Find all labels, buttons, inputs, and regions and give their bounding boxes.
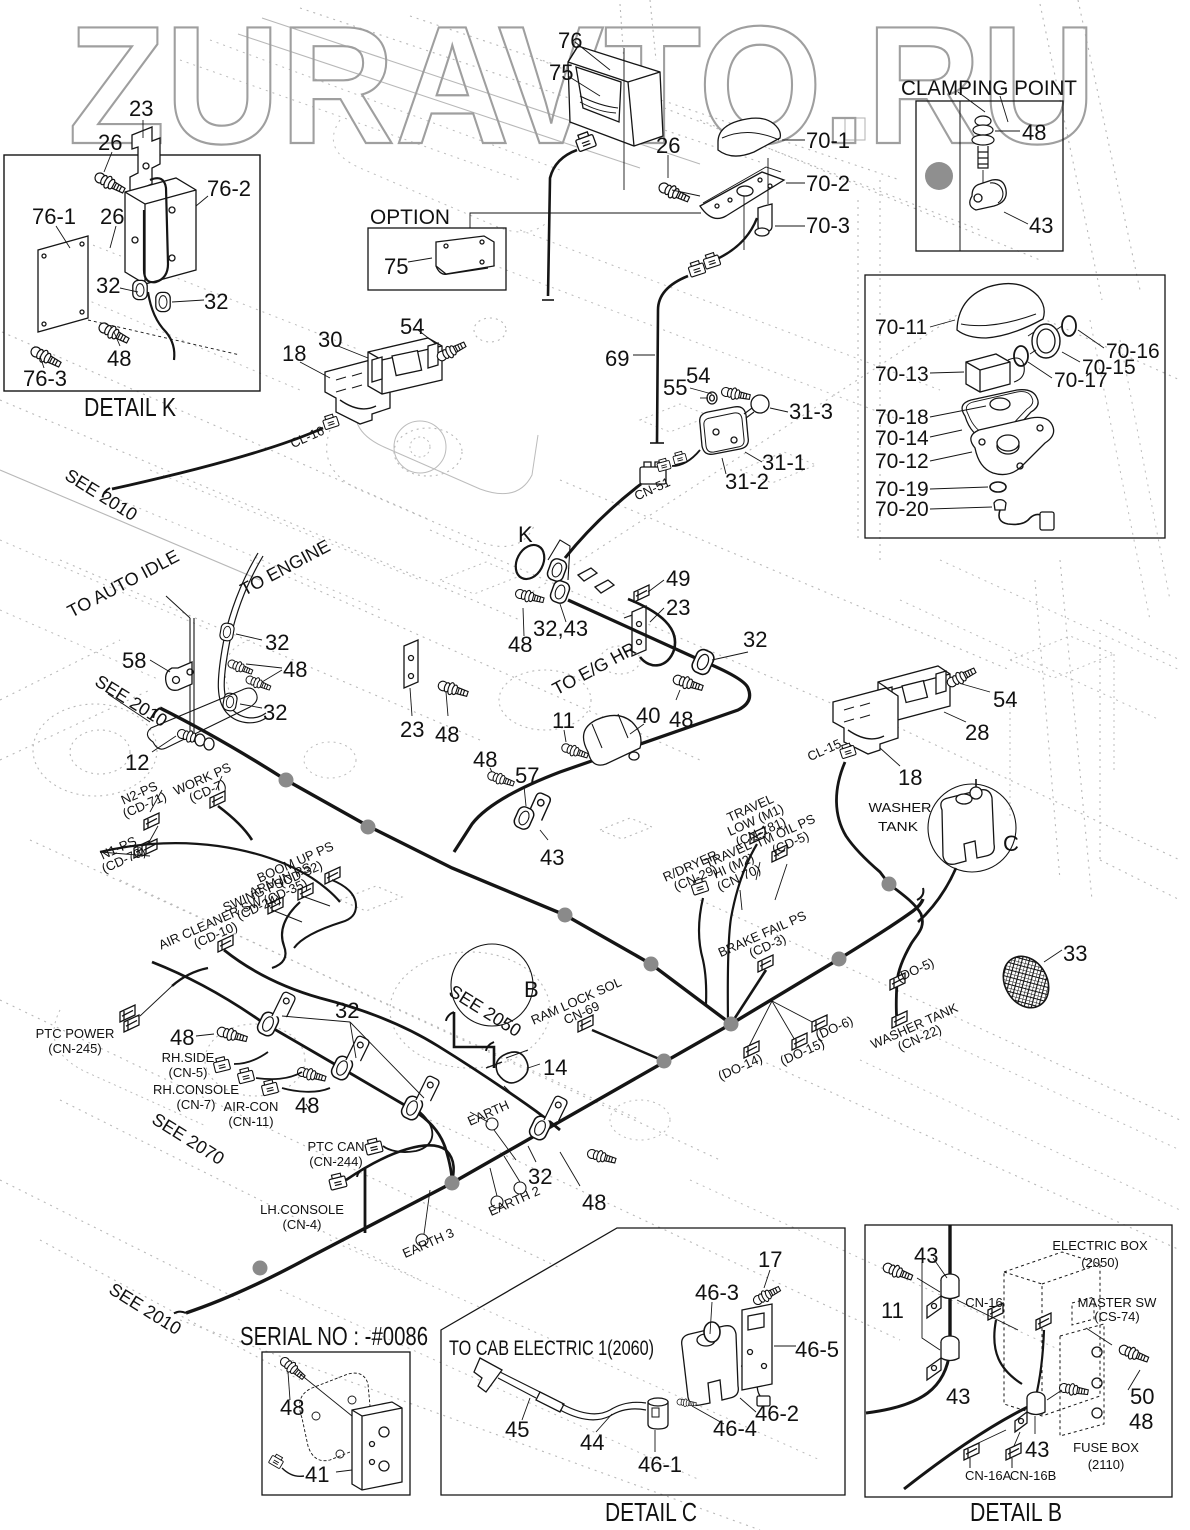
switch body 70-13 <box>966 354 1010 392</box>
bolt 48 (detail K) <box>97 320 131 347</box>
wire from monitor <box>548 150 577 296</box>
flag SWING PS CD-24 <box>268 897 283 914</box>
svg-text:58: 58 <box>122 648 146 673</box>
svg-text:70-1: 70-1 <box>806 128 850 153</box>
svg-text:RH.SIDE: RH.SIDE <box>162 1050 215 1065</box>
arrow TO CAB ELECTRIC <box>474 1358 502 1392</box>
svg-text:OPTION: OPTION <box>370 206 450 229</box>
bolt 17 <box>751 1283 782 1307</box>
svg-text:76: 76 <box>558 28 582 53</box>
70-2 plate <box>700 172 784 218</box>
svg-text:26: 26 <box>98 130 122 155</box>
svg-text:48: 48 <box>669 707 693 732</box>
svg-text:43: 43 <box>1025 1437 1049 1462</box>
bracket 46-5 <box>742 1304 772 1390</box>
svg-text:DETAIL C: DETAIL C <box>605 1497 697 1527</box>
svg-text:WASHER: WASHER <box>869 800 932 815</box>
flag WASHER TANK CN-22 <box>892 1011 907 1028</box>
grommet 32 (detail K right) <box>156 292 170 311</box>
svg-text:70-18: 70-18 <box>875 406 929 429</box>
connector pair (wire 69 top) <box>702 252 721 270</box>
flag DO-5 <box>890 973 905 990</box>
svg-text:76-2: 76-2 <box>207 176 251 201</box>
clamp 43 (clamping point) <box>970 180 1007 210</box>
flag TRAVEL <box>750 827 765 844</box>
lamp cover 70-11 <box>957 284 1044 338</box>
svg-text:(CN-245): (CN-245) <box>48 1041 101 1056</box>
svg-text:26: 26 <box>100 204 124 229</box>
branch RAM LOCK SOL <box>592 1030 664 1061</box>
bolt 54 (right) <box>945 665 978 690</box>
clamping point box <box>916 101 1063 251</box>
wire LH.CONSOLE <box>346 1145 454 1183</box>
bolt 11 (detail B) <box>881 1260 914 1283</box>
gasket 70-18 / 70-14 <box>962 390 1038 441</box>
svg-text:(CN-5): (CN-5) <box>169 1065 208 1080</box>
svg-text:32: 32 <box>335 998 359 1023</box>
wire TRAVEL <box>728 844 757 1022</box>
reservoir 46-2 <box>682 1326 739 1406</box>
svg-text:48: 48 <box>295 1093 319 1118</box>
svg-text:70-20: 70-20 <box>875 498 929 521</box>
earth ring EARTH <box>486 1118 498 1130</box>
bolt 48 (mid bracket 23) <box>437 679 470 700</box>
hook SEE 2010 (mid) <box>151 708 162 718</box>
svg-text:31-2: 31-2 <box>725 469 769 494</box>
clamp 57 <box>512 805 536 831</box>
wire CN-51 to grommet K <box>565 484 641 558</box>
svg-text:31-3: 31-3 <box>789 399 833 424</box>
bolt 48 (tube lower) <box>244 674 272 693</box>
svg-text:70-14: 70-14 <box>875 427 929 450</box>
svg-text:43: 43 <box>946 1384 970 1409</box>
monitor 75/76 <box>568 46 663 146</box>
flag RAM LOCK SOL CN-69 <box>578 1015 593 1032</box>
svg-text:(CN-11): (CN-11) <box>228 1114 273 1129</box>
washer branch wire (CL-15) <box>836 762 922 1020</box>
svg-text:48: 48 <box>1129 1409 1153 1434</box>
svg-text:23: 23 <box>400 717 424 742</box>
svg-text:32: 32 <box>96 273 120 298</box>
flag DO-15 <box>792 1033 807 1050</box>
svg-text:76-1: 76-1 <box>32 204 76 229</box>
trunk wire from K <box>568 600 700 660</box>
svg-text:DETAIL B: DETAIL B <box>970 1497 1062 1527</box>
grommet 32 (console 3) <box>399 1094 424 1122</box>
svg-text:(2110): (2110) <box>1088 1457 1125 1472</box>
bolt 50 <box>1117 1342 1150 1365</box>
trunk harness lower arm <box>186 1024 731 1313</box>
svg-text:C: C <box>1003 831 1019 856</box>
bolt 48 (air-con) <box>296 1065 327 1084</box>
tube loop 12 <box>147 688 257 749</box>
mirror 33 <box>994 948 1057 1016</box>
bolt 54 (lamp) <box>720 385 751 402</box>
svg-text:70-3: 70-3 <box>806 213 850 238</box>
circle C <box>928 784 1016 872</box>
retainer ring 70-15 <box>1032 324 1060 358</box>
air cleaner branch wire <box>224 950 560 1130</box>
svg-text:75: 75 <box>384 254 408 279</box>
o-ring 70-16 <box>1062 316 1076 336</box>
svg-text:48: 48 <box>1022 120 1046 145</box>
svg-text:69: 69 <box>605 346 629 371</box>
bolt 48 (tube upper) <box>226 658 254 677</box>
clip 49 <box>634 585 649 602</box>
plate 76-1 <box>38 236 88 332</box>
svg-text:46-1: 46-1 <box>638 1452 682 1477</box>
svg-text:43: 43 <box>914 1243 938 1268</box>
svg-text:46-5: 46-5 <box>795 1337 839 1362</box>
connector RH.CONSOLE CN-7 <box>237 1067 255 1084</box>
grommet 32 (trunk) <box>690 647 716 676</box>
svg-text:(CN-4): (CN-4) <box>283 1217 322 1232</box>
svg-text:70-17: 70-17 <box>1054 369 1108 392</box>
svg-text:CN-16A: CN-16A <box>965 1468 1012 1483</box>
console branch wire <box>152 962 452 1183</box>
svg-text:70-11: 70-11 <box>875 316 927 339</box>
svg-text:32,43: 32,43 <box>533 616 588 641</box>
svg-text:ELECTRIC BOX: ELECTRIC BOX <box>1052 1238 1148 1253</box>
trunk hook end (right) <box>917 888 923 900</box>
svg-text:14: 14 <box>543 1055 567 1080</box>
svg-text:CN-16B: CN-16B <box>1010 1468 1056 1483</box>
svg-text:CLAMPING POINT: CLAMPING POINT <box>901 77 1077 100</box>
svg-text:54: 54 <box>400 314 424 339</box>
svg-text:46-2: 46-2 <box>755 1401 799 1426</box>
svg-text:(CS-74): (CS-74) <box>1094 1309 1140 1324</box>
svg-text:54: 54 <box>686 363 710 388</box>
bracket 23 (mid) <box>404 640 418 688</box>
connectors TO E/G HR <box>578 568 614 593</box>
flag DO-6 <box>812 1015 827 1032</box>
earth ring EARTH 2 <box>514 1182 526 1194</box>
svg-text:RH.CONSOLE: RH.CONSOLE <box>153 1082 239 1097</box>
svg-text:23: 23 <box>666 595 690 620</box>
bolt 12 <box>176 727 207 747</box>
wire CL-16 to SEE 2010 <box>112 428 323 489</box>
flag CN-16B <box>1006 1443 1021 1460</box>
bolt 76-3 <box>29 344 63 371</box>
svg-text:AIR-CON: AIR-CON <box>224 1099 279 1114</box>
svg-text:12: 12 <box>125 750 149 775</box>
detail C box <box>441 1228 845 1495</box>
bulb 70-20 <box>994 500 1006 510</box>
svg-text:43: 43 <box>540 845 564 870</box>
flag PTC POWER CN-245 <box>120 1005 135 1022</box>
svg-text:70-12: 70-12 <box>875 450 929 473</box>
svg-text:LH.CONSOLE: LH.CONSOLE <box>260 1202 344 1217</box>
svg-text:11: 11 <box>552 708 575 733</box>
parts 70 box <box>865 275 1165 538</box>
svg-text:57: 57 <box>515 763 539 788</box>
wire loop at bracket 23 <box>628 599 675 665</box>
flag TM OIL PS CD-5 <box>772 845 787 862</box>
grommet 32 (detail K left) <box>133 280 147 299</box>
svg-text:48: 48 <box>170 1025 194 1050</box>
earth ring EARTH 3 <box>416 1234 428 1246</box>
svg-text:23: 23 <box>129 96 153 121</box>
base plate 70-12 <box>971 417 1054 474</box>
svg-text:(2050): (2050) <box>1081 1255 1119 1270</box>
svg-text:(CN-244): (CN-244) <box>309 1154 362 1169</box>
main wire (detail B) <box>948 1225 951 1352</box>
branch BRAKE FAIL PS <box>731 970 766 1024</box>
bulb 31-3 <box>751 395 769 413</box>
svg-text:48: 48 <box>508 632 532 657</box>
bracket 18 (right) <box>833 688 898 754</box>
svg-text:54: 54 <box>993 687 1017 712</box>
svg-text:44: 44 <box>580 1430 604 1455</box>
svg-text:DETAIL K: DETAIL K <box>84 392 177 422</box>
o-ring 70-17 <box>1014 346 1028 366</box>
70-3 bolt <box>758 204 772 232</box>
connector LH.CONSOLE CN-4 <box>328 1172 347 1190</box>
svg-text:76-3: 76-3 <box>23 366 67 391</box>
flag N1-PS CD-70 <box>134 841 149 858</box>
connector CL-15 <box>839 742 857 759</box>
switch panel 28 <box>878 666 950 722</box>
lamp 31-1 <box>700 407 749 455</box>
connector CN-51 <box>640 467 666 484</box>
wire 69 <box>657 276 688 443</box>
plate 75 (option) <box>436 236 494 274</box>
wire PTC POWER <box>172 968 208 986</box>
svg-text:33: 33 <box>1063 941 1087 966</box>
bolt 48 (node K) <box>514 587 545 606</box>
svg-text:75: 75 <box>549 60 573 85</box>
connector RH.SIDE CN-5 <box>213 1056 231 1073</box>
svg-text:TANK: TANK <box>878 819 918 834</box>
svg-text:18: 18 <box>898 765 922 790</box>
bracket 18 top <box>325 358 390 424</box>
bolt 48 (earth) <box>586 1147 617 1166</box>
connector AIR-CON CN-11 <box>261 1079 279 1096</box>
svg-text:17: 17 <box>758 1247 782 1272</box>
hook SEE 2010 (bottom) <box>174 1307 186 1319</box>
flag CN-16A <box>964 1443 979 1460</box>
flag AIR CLEANER SW CD-10 <box>218 935 233 952</box>
svg-text:48: 48 <box>280 1395 304 1420</box>
flag N2-PS CD-71 <box>144 813 159 830</box>
svg-text:30: 30 <box>318 327 342 352</box>
option box <box>368 228 506 290</box>
grommet 32,43 upper <box>546 557 569 583</box>
bolt 48 (console) <box>216 1025 249 1045</box>
washer tank wire <box>918 868 956 922</box>
grommet 32 (console 1) <box>255 1010 280 1038</box>
bolt 48 (serial box) <box>278 1355 308 1382</box>
svg-text:18: 18 <box>282 341 306 366</box>
svg-text:K: K <box>518 522 533 547</box>
bracket 43 on trunk <box>525 792 551 826</box>
svg-text:55: 55 <box>663 375 687 400</box>
engine tube <box>218 553 266 723</box>
svg-text:32: 32 <box>263 700 287 725</box>
washer tank body <box>941 790 994 865</box>
svg-text:48: 48 <box>582 1190 606 1215</box>
svg-text:48: 48 <box>473 747 497 772</box>
svg-text:32: 32 <box>743 627 767 652</box>
o-ring 70-19 <box>990 482 1006 492</box>
flag BOOM UP PS CD-32 <box>325 867 340 884</box>
flag DO-14 <box>744 1041 759 1058</box>
svg-text:28: 28 <box>965 720 989 745</box>
stub wires SEE 2050 <box>454 1012 494 1068</box>
bolt 48 (clamping point) <box>975 116 991 126</box>
svg-text:32: 32 <box>204 289 228 314</box>
svg-text:B: B <box>524 977 539 1002</box>
stub wire SEE 2070 <box>364 1168 367 1233</box>
svg-text:(CN-7): (CN-7) <box>177 1097 216 1112</box>
bolt 26 (upper, detail K) <box>93 170 127 197</box>
svg-text:50: 50 <box>1130 1384 1154 1409</box>
svg-text:PTC POWER: PTC POWER <box>36 1026 115 1041</box>
70-1 dome <box>718 118 780 156</box>
svg-text:32: 32 <box>265 630 289 655</box>
svg-text:70-13: 70-13 <box>875 363 929 386</box>
wire R/DRYER <box>699 898 706 1004</box>
serial box <box>262 1352 410 1495</box>
svg-text:48: 48 <box>283 657 307 682</box>
bolt 11 <box>560 741 589 761</box>
svg-text:MASTER SW: MASTER SW <box>1078 1295 1157 1310</box>
svg-text:49: 49 <box>666 566 690 591</box>
ellipse node K <box>510 540 550 584</box>
bolt 46-4 <box>676 1398 696 1408</box>
bolt 26 (top center) <box>657 180 691 205</box>
svg-text:TO CAB ELECTRIC 1(2060): TO CAB ELECTRIC 1(2060) <box>449 1337 654 1360</box>
connector CL-16 <box>322 413 340 430</box>
svg-text:26: 26 <box>656 133 680 158</box>
svg-text:46-4: 46-4 <box>713 1416 757 1441</box>
svg-text:FUSE BOX: FUSE BOX <box>1073 1440 1139 1455</box>
bolt 48 (near 57) <box>486 769 515 789</box>
solenoid 40 <box>584 715 642 765</box>
svg-text:46-3: 46-3 <box>695 1280 739 1305</box>
connector PTC CAN CN-244 <box>364 1137 383 1155</box>
detail B box <box>865 1225 1172 1497</box>
clamping point marker dot <box>925 162 953 190</box>
detail K frame <box>4 155 260 391</box>
bracket 23 (right) <box>632 606 646 656</box>
grommet 32 (console 2) <box>329 1054 354 1082</box>
svg-text:CN-16: CN-16 <box>965 1295 1003 1310</box>
svg-text:11: 11 <box>881 1298 904 1323</box>
svg-text:45: 45 <box>505 1417 529 1442</box>
bolt 48 (detail B) <box>1059 1381 1089 1398</box>
svg-text:70-2: 70-2 <box>806 171 850 196</box>
svg-text:48: 48 <box>435 722 459 747</box>
svg-text:SERIAL NO : -#0086: SERIAL NO : -#0086 <box>240 1321 428 1351</box>
trunk harness left arm <box>160 708 731 1024</box>
svg-text:PTC CAN: PTC CAN <box>307 1139 364 1154</box>
svg-text:48: 48 <box>107 346 131 371</box>
pump wire 46-2 <box>741 1366 763 1398</box>
flag ARM IN PS CD-35 <box>298 883 313 900</box>
wire PTC CAN <box>383 1112 432 1152</box>
grommet 32,43 lower <box>549 579 572 605</box>
switch 30 <box>368 338 442 394</box>
bolt 48 (under grommet 32) <box>672 673 705 694</box>
cylinder 46-1 <box>648 1402 668 1429</box>
flag CN-16 <box>988 1303 1003 1320</box>
flag WORK PS CD-7 <box>210 791 225 808</box>
trunk wire bend to bracket 43 <box>454 660 750 852</box>
auto idle cable <box>190 618 194 742</box>
svg-text:40: 40 <box>636 703 660 728</box>
flag BRAKE FAIL PS CD-3 <box>758 955 773 972</box>
svg-text:43: 43 <box>1029 213 1053 238</box>
svg-text:41: 41 <box>305 1462 329 1487</box>
monitor connector <box>574 131 596 152</box>
connector R/DRYER CN-29 <box>690 878 709 896</box>
grommet 32 (earth) <box>527 1114 552 1142</box>
plate 41 <box>352 1402 402 1490</box>
flag CN-16 (right) <box>1036 1313 1051 1330</box>
bracket 58 <box>166 662 192 690</box>
trunk harness right arm <box>731 899 923 1024</box>
circle B <box>451 944 533 1026</box>
clamp 14 <box>496 1052 528 1083</box>
